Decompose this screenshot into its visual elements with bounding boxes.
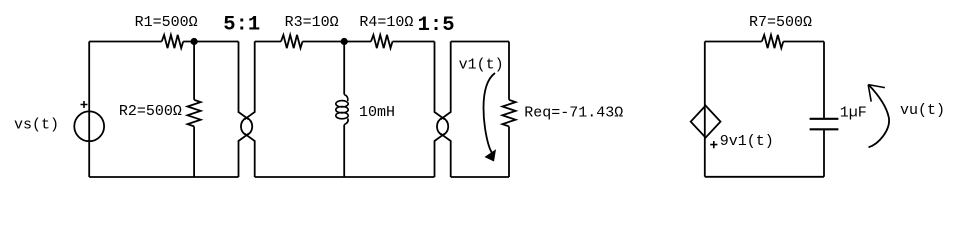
resistor R7: [762, 35, 784, 48]
wire: Req top lead: [508, 42, 510, 100]
wire: right vertical below capacitor: [823, 130, 825, 177]
arrowhead barbs vu(t): [868, 85, 885, 102]
transformer T1 secondary winding: [245, 42, 255, 120]
plus sign of dependent source: [710, 141, 717, 148]
resistor R3: [281, 35, 303, 48]
arrowhead of v1(t): [485, 149, 497, 161]
wire: inductor top lead: [343, 42, 345, 95]
arrow arc vu(t): [868, 85, 889, 148]
transformer T2 core lens: [437, 118, 448, 136]
junction node after R3: [341, 38, 348, 45]
wire: top segment R1 to transformer: [183, 41, 238, 43]
wire: left vertical of section 4: [704, 42, 706, 177]
wire: R2 bottom lead: [193, 126, 195, 177]
wire: top of section 2 left part: [255, 41, 281, 43]
transformer T2 primary winding: [435, 42, 445, 120]
svg-text:10mH: 10mH: [359, 104, 395, 121]
resistor R2: [188, 100, 201, 127]
svg-text:vs(t): vs(t): [14, 117, 59, 134]
resistor R4: [371, 35, 393, 48]
svg-text:v1(t): v1(t): [459, 57, 504, 74]
wire: right vertical above capacitor: [823, 42, 825, 119]
wire: R3 to R4: [303, 41, 372, 43]
resistor R1: [162, 35, 184, 48]
svg-text:R2=500Ω: R2=500Ω: [119, 103, 182, 120]
svg-text:1µF: 1µF: [840, 104, 867, 121]
svg-text:R7=500Ω: R7=500Ω: [749, 14, 812, 31]
voltage source vs(t): [74, 111, 104, 141]
svg-text:5:1: 5:1: [223, 14, 260, 37]
junction node after R1: [191, 38, 198, 45]
arrow arc v1(t): [484, 73, 496, 153]
wire: R7 to top-right corner: [783, 41, 824, 43]
wire: left vertical of section 1: [88, 42, 90, 178]
wire: R2 top lead: [193, 42, 195, 100]
svg-text:R1=500Ω: R1=500Ω: [135, 14, 198, 31]
transformer T1 primary winding: [239, 42, 249, 120]
wire: bottom of section 2: [255, 176, 435, 178]
wire: R4 to transformer T2: [393, 41, 435, 43]
wire: bottom of section 1: [89, 176, 238, 178]
inductor 10mH: [344, 95, 348, 102]
wire: top of section 3: [451, 41, 509, 43]
dependent source 9v1(t) diamond: [691, 106, 721, 138]
wire: Req bottom lead: [508, 126, 510, 177]
svg-text:R4=10Ω: R4=10Ω: [359, 14, 413, 31]
transformer T1 core lens: [241, 118, 252, 136]
wire: bottom of section 4: [705, 176, 824, 178]
wire: top of section 4 left part: [705, 41, 762, 43]
svg-text:Req=-71.43Ω: Req=-71.43Ω: [524, 104, 623, 121]
plus sign of vs(t): [81, 101, 88, 108]
svg-text:vu(t): vu(t): [900, 102, 945, 119]
capacitor C 1uF plates: [810, 119, 839, 130]
wire: bottom of section 3: [451, 176, 509, 178]
resistor Req: [502, 100, 515, 127]
wire: inductor bottom lead: [343, 125, 345, 177]
transformer T2 secondary winding: [441, 42, 451, 120]
svg-text:R3=10Ω: R3=10Ω: [285, 14, 339, 31]
svg-text:9v1(t): 9v1(t): [720, 133, 774, 150]
svg-text:1:5: 1:5: [418, 14, 455, 37]
wire: top-left segment section 1: [89, 41, 162, 43]
